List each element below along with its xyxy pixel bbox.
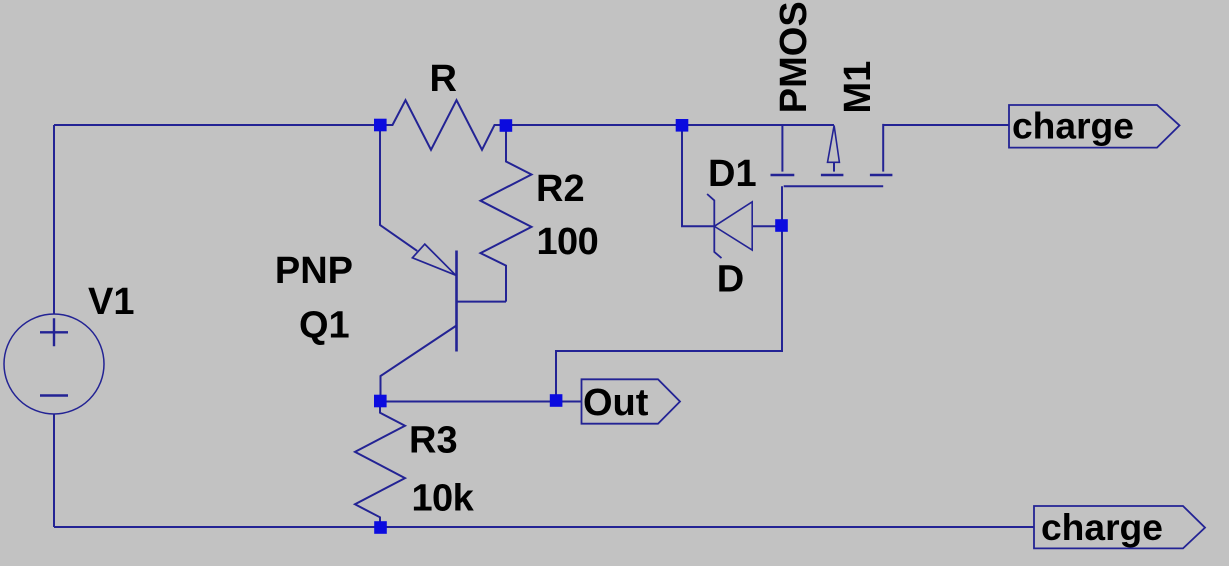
voltage source V1 circle [4, 314, 104, 414]
mosfet M1 bulk lead [833, 162, 835, 171]
node junction Out [550, 394, 563, 407]
wire Q1 collector [381, 326, 457, 402]
svg-text:R3: R3 [409, 420, 458, 462]
mosfet M1 source lead [781, 125, 783, 172]
node junction top-left [374, 119, 387, 132]
wire top rail mid [506, 124, 682, 126]
wire D1 cathode drop [682, 125, 714, 226]
wire top rail left [54, 124, 380, 126]
mosfet M1 bulk arrow [828, 126, 840, 163]
node junction R-R2 [500, 119, 513, 132]
svg-text:10k: 10k [412, 477, 475, 519]
wire Out net [380, 401, 582, 403]
svg-text:V1: V1 [88, 281, 134, 323]
flag Out [582, 379, 681, 423]
svg-text:D: D [717, 259, 744, 301]
svg-text:PMOS: PMOS [773, 1, 815, 113]
node junction gate [775, 219, 788, 232]
svg-text:R2: R2 [536, 168, 585, 210]
svg-text:D1: D1 [708, 153, 757, 195]
mosfet M1 gate line [784, 185, 884, 187]
svg-text:charge: charge [1041, 506, 1163, 548]
flag charge bottom [1034, 506, 1205, 548]
wire bottom rail [54, 526, 1034, 528]
transistor Q1 base bar [455, 251, 458, 352]
zener diode D1 triangle [714, 202, 752, 250]
wire Q1 emitter [380, 125, 417, 251]
V1 plus sign [40, 318, 68, 346]
resistor R3 [355, 402, 405, 528]
node junction collector-R3 [374, 395, 387, 408]
wire left rail lower [53, 414, 55, 527]
zener diode D1 cathode bar [707, 194, 721, 258]
svg-text:M1: M1 [837, 61, 879, 114]
svg-text:R: R [430, 58, 457, 100]
svg-text:Q1: Q1 [299, 305, 350, 347]
svg-text:PNP: PNP [275, 250, 353, 292]
svg-text:charge: charge [1012, 104, 1134, 146]
wire D1 anode [752, 225, 781, 227]
wire top rail to M1 source [682, 124, 834, 126]
mosfet M1 drain lead [882, 124, 884, 172]
transistor Q1 emitter arrow [412, 244, 455, 275]
svg-text:100: 100 [537, 221, 599, 263]
wire M1 drain to charge [883, 124, 1009, 126]
resistor R2 [481, 126, 532, 302]
resistor R [380, 100, 506, 150]
svg-text:Out: Out [583, 382, 649, 424]
flag charge top [1009, 105, 1180, 148]
node junction D1 drop [676, 119, 689, 132]
wire gate net [556, 186, 782, 401]
V1 minus sign [40, 394, 68, 396]
wire left rail upper [53, 125, 55, 314]
wire R2 base link [457, 301, 506, 303]
node junction R3-bottom [374, 521, 387, 534]
